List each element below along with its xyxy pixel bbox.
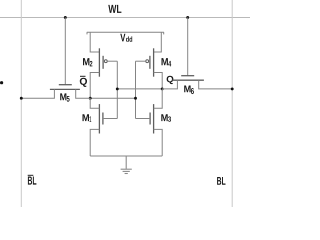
- wire M1 source lead: [90, 129, 99, 156]
- wire right gate column: [135, 61, 137, 118]
- wire M1 gate lead: [103, 118, 117, 120]
- transistor M4 (PMOS): [136, 32, 163, 89]
- junction dot Qbar on right gate column: [134, 97, 137, 100]
- ground: [121, 156, 132, 174]
- M5 channel bar: [50, 88, 80, 90]
- M3 channel bar: [153, 104, 155, 133]
- junction dot node Qbar: [89, 97, 92, 100]
- wire node Qbar (cross-couple to right gates): [90, 97, 135, 99]
- M4 channel bar: [153, 48, 155, 76]
- label M1: [83, 114, 90, 121]
- wire M2 drain lead: [90, 73, 99, 99]
- junction dot BLbar: [20, 97, 23, 100]
- label M2: [83, 58, 89, 65]
- M1 channel bar: [98, 104, 100, 133]
- wire M4 gate lead: [136, 60, 146, 62]
- label M4: [162, 58, 168, 65]
- junction dot WL to M5 gate: [64, 16, 67, 19]
- wire M5 drain lead to BLbar: [21, 89, 54, 98]
- transistor M2 (PMOS): [90, 32, 117, 98]
- wire M6 lead to Q: [162, 80, 177, 89]
- wire node Q (cross-couple to left gates): [117, 88, 162, 90]
- M5 gate bar: [59, 84, 72, 86]
- bit line BLbar (left rail): [20, 0, 22, 207]
- wire M3 source lead: [154, 129, 163, 156]
- M3 gate bar: [149, 113, 151, 125]
- transistor M6 (access NMOS, horizontal): [162, 76, 232, 89]
- label BLbar: [28, 175, 37, 184]
- label WL: [108, 5, 121, 13]
- M4 gate bar: [149, 56, 151, 69]
- wire M2 gate lead: [107, 60, 117, 62]
- wire ground rail: [90, 155, 162, 157]
- wire left gate column: [116, 61, 118, 118]
- wire M4 source lead: [154, 32, 162, 52]
- M2 channel bar: [98, 48, 100, 76]
- transistor M1 (NMOS): [90, 98, 117, 156]
- label M6: [184, 86, 190, 93]
- label M5: [60, 93, 66, 100]
- M6 channel bar: [172, 79, 204, 81]
- label Q: [167, 76, 174, 84]
- wire M5 source lead to Qbar: [76, 89, 91, 98]
- transistor M3 (NMOS): [136, 89, 163, 156]
- wire M3 gate lead: [136, 118, 151, 120]
- label M3: [161, 114, 167, 121]
- wire M5 gate lead: [64, 18, 66, 85]
- wire M2 source lead: [90, 32, 99, 52]
- M2 bubble: [104, 60, 107, 63]
- label Vdd: [120, 34, 125, 42]
- Vdd rail end ticks: [86, 32, 88, 34]
- transistor M5 (access NMOS, horizontal): [21, 85, 90, 99]
- wire M6 gate lead: [187, 18, 189, 76]
- M4 bubble: [146, 60, 149, 63]
- M6 gate bar: [181, 75, 194, 77]
- Vdd rail: [87, 31, 164, 33]
- bit line BL (right rail): [231, 0, 233, 207]
- junction dot node Q: [161, 87, 164, 90]
- junction dot on left edge: [0, 81, 3, 84]
- wire M3 drain lead: [154, 89, 163, 108]
- label BL: [217, 177, 225, 185]
- M2 gate bar: [102, 56, 104, 69]
- junction dot Q on left gate column: [116, 87, 119, 90]
- word line WL: [0, 17, 250, 19]
- M1 gate bar: [102, 113, 104, 125]
- junction dot WL to M6 gate: [186, 16, 189, 19]
- wire M6 lead to BL: [199, 80, 233, 89]
- label Qbar: [80, 76, 87, 87]
- wire M1 drain lead: [90, 98, 99, 108]
- junction dot BL: [231, 87, 234, 90]
- wire M4 drain lead: [154, 73, 163, 89]
